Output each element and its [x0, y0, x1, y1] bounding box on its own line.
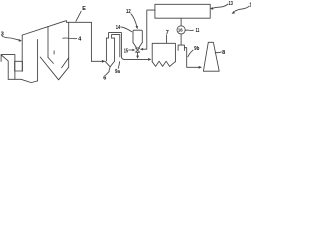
controller rect 13: [155, 4, 210, 18]
label E: [76, 6, 86, 21]
svg-text:9b: 9b: [194, 46, 200, 52]
svg-text:6: 6: [103, 75, 106, 81]
boiler annex box: [1, 55, 15, 80]
svg-text:4: 4: [78, 36, 82, 42]
fan 16: [177, 26, 185, 34]
stack 8: [203, 42, 219, 71]
svg-text:12: 12: [126, 9, 131, 15]
label 14: [116, 25, 132, 32]
wire fan to inlet box: [180, 34, 182, 45]
boiler platen: [53, 51, 55, 54]
svg-text:1: 1: [249, 3, 251, 9]
label 6: [103, 71, 109, 81]
boiler internal wall (front): [37, 39, 39, 81]
valve 15: [136, 48, 140, 59]
label 11: [186, 28, 200, 34]
svg-text:E: E: [82, 6, 86, 12]
absorber inlet box: [178, 45, 184, 50]
label 13: [210, 1, 233, 10]
flue duct E: boiler to vessel 5: [67, 22, 106, 62]
wire rect 13 to fan: [180, 18, 182, 26]
svg-text:14: 14: [116, 25, 121, 31]
label 8: [215, 50, 225, 56]
boiler internal wall (rear pass): [47, 27, 49, 58]
svg-text:9a: 9a: [115, 69, 121, 75]
label 4: [63, 36, 82, 42]
svg-text:8: 8: [222, 50, 225, 56]
annex chute: [1, 55, 8, 79]
vessel 5 (dust collector): [105, 38, 115, 71]
label 9a: [115, 62, 121, 75]
boiler furnace bottom: [8, 79, 37, 82]
boiler inner hopper leg: [48, 57, 53, 63]
boiler inner hopper right leg: [62, 58, 69, 68]
duct 9a riser from vessel 5: [109, 33, 152, 61]
label 12: [126, 9, 138, 30]
duct 9b: [184, 48, 202, 69]
svg-text:15: 15: [124, 48, 128, 54]
boiler 4 outline: [22, 21, 68, 72]
label 7: [166, 30, 169, 43]
svg-text:13: 13: [229, 1, 233, 7]
label 9b: [188, 46, 200, 57]
label 3: [1, 31, 22, 41]
annex small square: [15, 61, 23, 71]
boiler rear-pass hopper V: [40, 57, 68, 80]
svg-text:16: 16: [178, 28, 183, 33]
svg-text:11: 11: [196, 28, 200, 34]
label 15: [124, 48, 136, 54]
absorber 7: [152, 43, 175, 66]
label 1 (system): [232, 3, 253, 14]
silo 14: [133, 30, 142, 48]
control line 13 to valve 15: [140, 10, 155, 50]
